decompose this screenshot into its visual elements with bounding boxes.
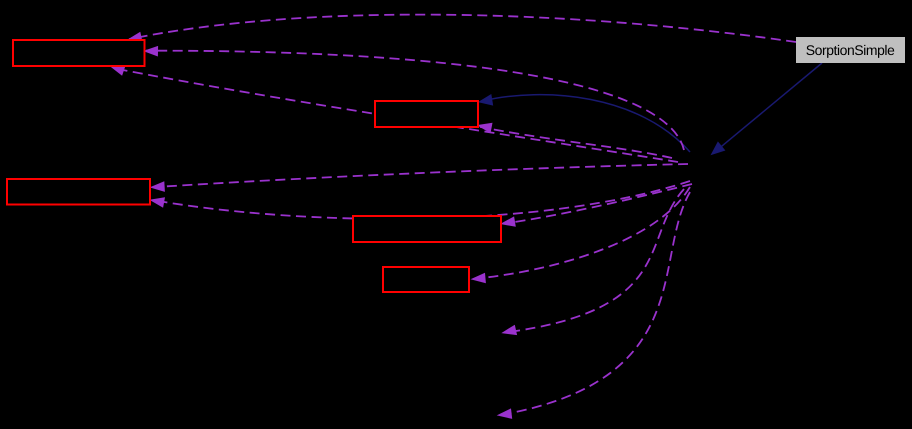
edge central->box1 right (dashed purple) [143, 46, 684, 150]
box3 (red node, middle-left) [7, 179, 150, 205]
edge SorptionSimple->box1 (dashed purple, long arc over the top) [127, 15, 796, 43]
box4 (red node, middle) [353, 216, 501, 242]
edge central->box3 upper (dashed purple) [150, 164, 688, 192]
node SorptionSimple (grey current-class node) [796, 37, 905, 63]
edge central->hidden node B (dashed purple) [497, 192, 690, 419]
box2 (red node, upper middle) [375, 101, 478, 127]
box5 (red node, lower middle) [383, 267, 469, 292]
edge SorptionSimple->central hidden node (solid blue) [711, 63, 823, 155]
edge central->box4 (dashed purple) [500, 184, 692, 227]
box1 (red node, top-left) [13, 40, 145, 66]
edge central->hidden node A (dashed purple) [501, 189, 684, 335]
edge central->box1 bottom (dashed purple) [110, 66, 678, 162]
edge central hidden node->box2 (solid blue) [478, 94, 690, 152]
edge central->box3 lower (dashed purple) [149, 181, 690, 219]
edge central->box2 corner (dashed purple) [477, 123, 672, 158]
edge central->box5 (dashed purple) [471, 187, 691, 283]
